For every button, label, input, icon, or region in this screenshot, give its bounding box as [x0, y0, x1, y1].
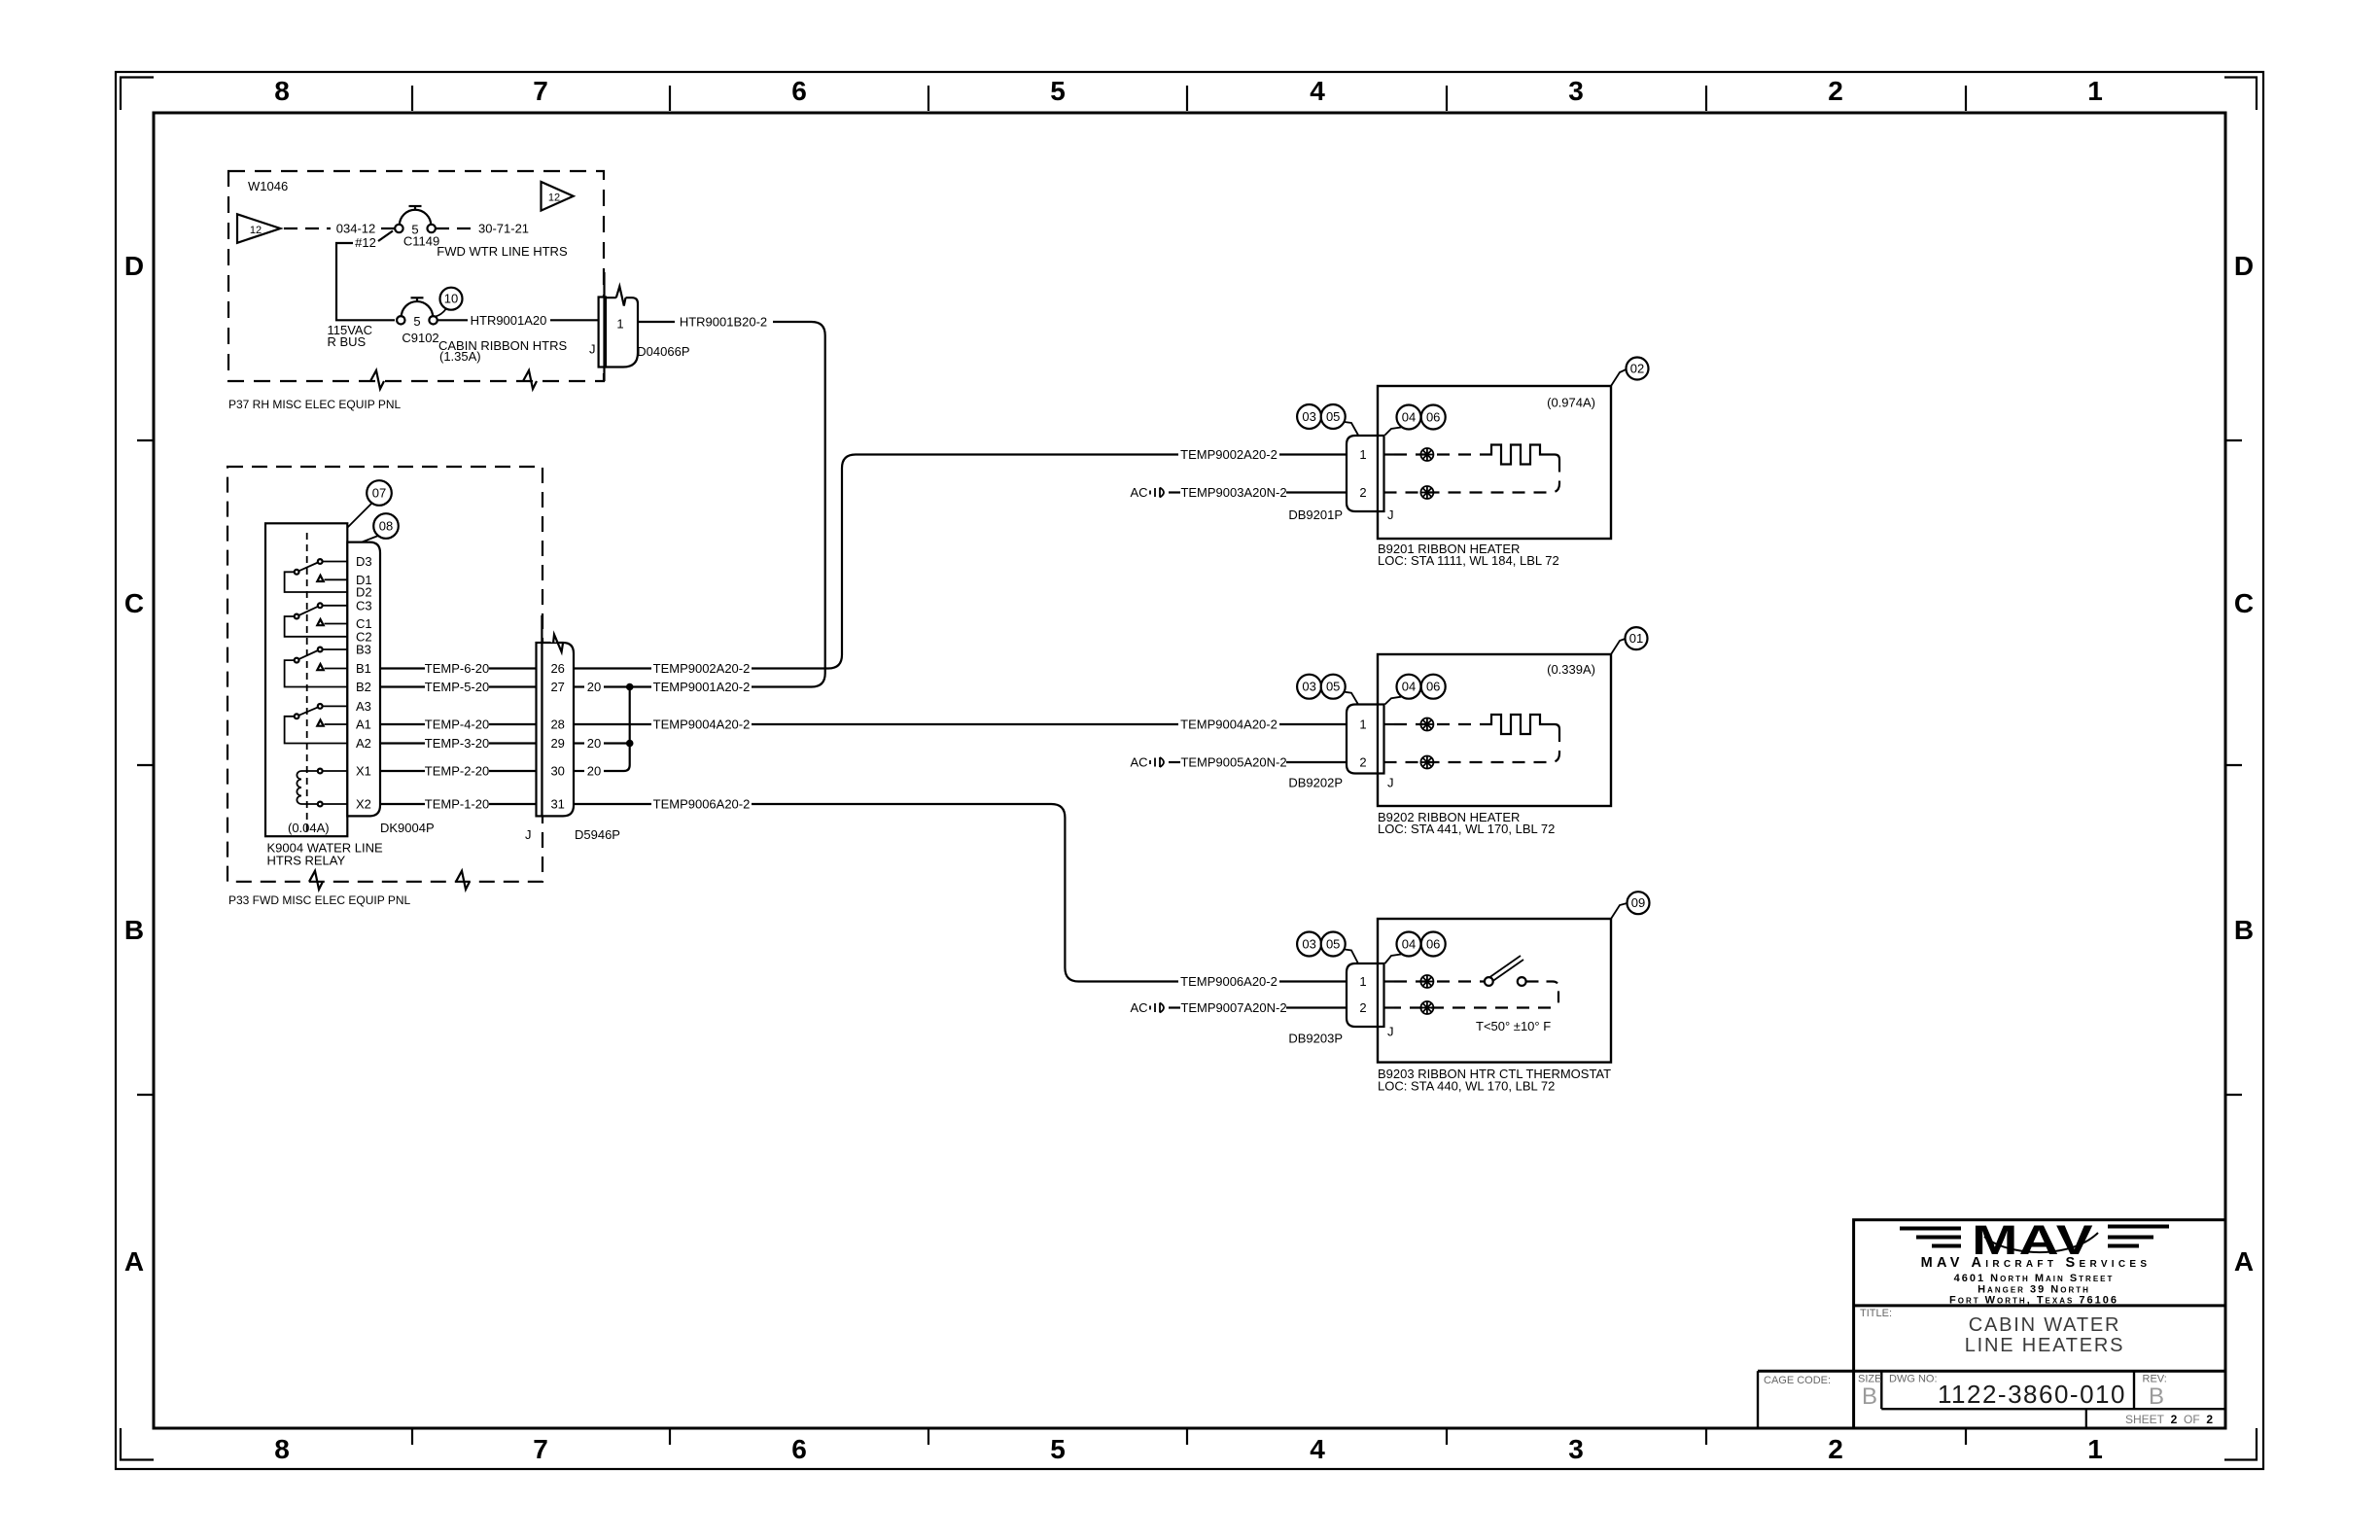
svg-text:1: 1	[2087, 76, 2103, 106]
svg-text:1: 1	[1359, 717, 1366, 732]
wire #12 bus tap	[336, 231, 395, 321]
svg-text:1: 1	[2087, 1434, 2103, 1464]
svg-text:6: 6	[791, 76, 807, 106]
heating element	[1484, 445, 1559, 465]
svg-text:TEMP-6-20: TEMP-6-20	[425, 661, 489, 676]
svg-text:08: 08	[379, 519, 393, 534]
balloon 06	[1421, 675, 1446, 699]
svg-text:A3: A3	[356, 699, 371, 714]
switch output dashes	[1527, 982, 1559, 1008]
svg-text:D3: D3	[356, 554, 372, 569]
svg-text:TEMP9002A20-2: TEMP9002A20-2	[1180, 447, 1277, 462]
svg-text:(1.35A): (1.35A)	[439, 349, 481, 364]
label (0.04A)	[288, 821, 330, 835]
svg-text:X2: X2	[356, 797, 371, 812]
wire TEMP9002A20-2 into DB9201P	[1180, 447, 1347, 462]
svg-text:A: A	[2234, 1246, 2254, 1277]
svg-text:(0.04A): (0.04A)	[288, 821, 330, 835]
element return dashed	[1384, 729, 1560, 762]
wire pin30 20 with riser	[574, 744, 630, 779]
svg-text:07: 07	[372, 486, 386, 501]
svg-text:4601 North Main Street: 4601 North Main Street	[1954, 1273, 2115, 1284]
svg-text:8: 8	[274, 76, 290, 106]
relay coil K9004	[297, 769, 348, 807]
svg-text:P33 FWD MISC ELEC EQUIP PNL: P33 FWD MISC ELEC EQUIP PNL	[228, 893, 410, 907]
svg-text:A2: A2	[356, 736, 371, 751]
svg-text:B: B	[1862, 1383, 1877, 1410]
wire TEMP-3-20	[380, 736, 537, 751]
svg-text:D2: D2	[356, 585, 372, 600]
svg-text:20: 20	[587, 736, 601, 751]
svg-text:30-71-21: 30-71-21	[478, 222, 529, 236]
svg-text:2: 2	[1828, 1434, 1843, 1464]
wire TEMP-1-20	[380, 797, 537, 812]
svg-text:20: 20	[587, 680, 601, 694]
connector DK9004P plug shell	[347, 542, 380, 817]
splice pin1	[1420, 975, 1433, 988]
svg-text:04: 04	[1402, 937, 1416, 952]
svg-text:X1: X1	[356, 764, 371, 779]
connector DB9203P plug shell	[1347, 963, 1384, 1027]
svg-text:5: 5	[1050, 76, 1066, 106]
svg-text:Fort Worth, Texas 76106: Fort Worth, Texas 76106	[1949, 1295, 2118, 1307]
label DB9201P	[1288, 507, 1343, 522]
connector D04066P plug shell	[599, 287, 638, 367]
svg-text:06: 06	[1426, 680, 1440, 694]
svg-text:06: 06	[1426, 937, 1440, 952]
svg-text:B2: B2	[356, 680, 371, 694]
wire TEMP-4-20	[380, 717, 537, 732]
balloon 05	[1321, 675, 1358, 705]
label DB9203P	[1288, 1032, 1343, 1046]
pin wires relay to D5946P with TEMP-x-20 labels	[380, 661, 537, 812]
svg-text:26: 26	[550, 661, 564, 676]
AC ground ref	[1130, 755, 1164, 770]
svg-text:09: 09	[1631, 895, 1645, 910]
svg-text:R BUS: R BUS	[328, 334, 367, 349]
splice pin2	[1420, 756, 1433, 769]
balloon 10	[436, 288, 463, 317]
break symbol on P37 panel bottom edge	[370, 370, 384, 389]
svg-text:TEMP-2-20: TEMP-2-20	[425, 764, 489, 779]
svg-text:04: 04	[1402, 410, 1416, 425]
wire pin28 TEMP9004A20-2	[574, 717, 750, 732]
junction dot pin27	[626, 683, 634, 691]
balloon 07	[348, 480, 392, 527]
svg-text:J: J	[1387, 507, 1394, 522]
svg-text:TEMP9005A20N-2: TEMP9005A20N-2	[1180, 755, 1286, 770]
label P37 RH MISC ELEC EQUIP PNL	[228, 398, 401, 411]
svg-text:W1046: W1046	[248, 179, 288, 193]
balloon 05	[1321, 932, 1358, 964]
panel edge through connector	[603, 272, 605, 381]
svg-text:TEMP9004A20-2: TEMP9004A20-2	[653, 717, 751, 732]
svg-text:03: 03	[1302, 680, 1315, 694]
break symbol on P37 panel bottom edge	[523, 370, 537, 389]
svg-text:TEMP-3-20: TEMP-3-20	[425, 736, 489, 751]
wire TEMP9006A20-2 into DB9203P	[1180, 974, 1347, 989]
wire TEMP-2-20	[380, 764, 537, 779]
svg-text:3: 3	[1568, 1434, 1584, 1464]
svg-text:TEMP9001A20-2: TEMP9001A20-2	[653, 680, 751, 694]
svg-text:6: 6	[791, 1434, 807, 1464]
svg-text:1: 1	[1359, 447, 1366, 462]
wire TEMP9003A20N-2	[1169, 485, 1347, 500]
D5946P pin numbers	[550, 661, 564, 812]
svg-text:TEMP-1-20: TEMP-1-20	[425, 797, 489, 812]
splice pin2	[1420, 486, 1433, 499]
svg-text:4: 4	[1310, 76, 1325, 106]
svg-text:LOC: STA 440, WL 170, LBL 72: LOC: STA 440, WL 170, LBL 72	[1378, 1079, 1555, 1094]
thermostat switch contacts	[1485, 956, 1526, 986]
label B9202 RIBBON HEATER	[1378, 810, 1555, 836]
svg-text:HTR9001B20-2: HTR9001B20-2	[680, 315, 767, 330]
svg-text:TEMP9006A20-2: TEMP9006A20-2	[1180, 974, 1277, 989]
svg-text:CABIN WATER: CABIN WATER	[1969, 1314, 2120, 1336]
svg-text:C: C	[124, 588, 144, 618]
break symbol on P33 panel bottom edge	[456, 871, 470, 890]
label FWD WTR LINE HTRS	[437, 244, 568, 259]
svg-text:TEMP-5-20: TEMP-5-20	[425, 680, 489, 694]
connector DB9201P plug shell	[1347, 436, 1384, 511]
svg-text:TEMP9003A20N-2: TEMP9003A20N-2	[1180, 485, 1286, 500]
svg-text:C3: C3	[356, 598, 372, 612]
wire pin27 20 / TEMP9001A20-2	[574, 680, 750, 694]
svg-text:20: 20	[587, 764, 601, 779]
svg-text:LOC: STA 441, WL 170, LBL 72: LOC: STA 441, WL 170, LBL 72	[1378, 822, 1555, 836]
wire pin31 TEMP9006A20-2	[574, 797, 750, 812]
svg-text:03: 03	[1302, 409, 1315, 424]
svg-text:30: 30	[550, 764, 564, 779]
svg-text:1122-3860-010: 1122-3860-010	[1938, 1380, 2126, 1409]
label J	[525, 827, 532, 842]
svg-text:LINE HEATERS: LINE HEATERS	[1965, 1335, 2125, 1356]
wire 30-71-21	[436, 222, 529, 236]
svg-text:10: 10	[444, 292, 458, 306]
svg-text:2: 2	[1359, 1000, 1366, 1015]
wire TEMP9004A20-2 to heater 2	[752, 723, 1178, 725]
svg-text:HTRS RELAY: HTRS RELAY	[267, 854, 346, 868]
svg-text:DB9201P: DB9201P	[1288, 507, 1343, 522]
label J	[1387, 776, 1394, 790]
label J	[589, 342, 596, 357]
svg-text:DB9203P: DB9203P	[1288, 1032, 1343, 1046]
svg-text:A: A	[124, 1246, 144, 1277]
svg-text:B: B	[2149, 1383, 2164, 1410]
label W1046	[248, 179, 288, 193]
balloon 09	[1611, 892, 1650, 919]
wire pin29 20	[574, 736, 630, 751]
svg-text:AC: AC	[1130, 755, 1147, 770]
MAV logo	[1900, 1216, 2169, 1264]
wire HTR9001B20-2	[638, 315, 825, 687]
svg-text:AC: AC	[1130, 485, 1147, 500]
svg-text:TEMP9007A20N-2: TEMP9007A20N-2	[1180, 1000, 1286, 1015]
label P33 FWD MISC ELEC EQUIP PNL	[228, 893, 410, 907]
svg-text:8: 8	[274, 1434, 290, 1464]
label J	[1387, 507, 1394, 522]
break symbol on P33 panel bottom edge	[309, 871, 323, 890]
connector DB9202P plug shell	[1347, 705, 1384, 774]
svg-text:TEMP9004A20-2: TEMP9004A20-2	[1180, 717, 1277, 732]
svg-text:034-12: 034-12	[336, 222, 375, 236]
label D5946P	[575, 827, 620, 842]
balloon 04	[1385, 405, 1421, 436]
svg-text:DWG NO:: DWG NO:	[1889, 1374, 1938, 1385]
svg-text:4: 4	[1310, 1434, 1325, 1464]
svg-text:B: B	[2234, 915, 2254, 945]
svg-text:TITLE:: TITLE:	[1860, 1308, 1892, 1319]
circuit breaker C9102	[397, 297, 439, 345]
svg-text:01: 01	[1629, 631, 1643, 646]
panel P33 dashed enclosure	[227, 467, 542, 882]
return dashes pin2	[1384, 1006, 1552, 1008]
balloon 03	[1297, 932, 1321, 957]
svg-text:AC: AC	[1130, 1000, 1147, 1015]
off-sheet flag 12 (left)	[237, 214, 280, 243]
svg-text:T<50° ±10° F: T<50° ±10° F	[1476, 1019, 1551, 1033]
svg-text:J: J	[589, 342, 596, 357]
svg-text:(0.339A): (0.339A)	[1547, 662, 1595, 677]
circuit breaker C1149	[395, 206, 439, 249]
svg-text:29: 29	[550, 736, 564, 751]
wire 034-12	[284, 222, 395, 236]
svg-text:2: 2	[1828, 76, 1843, 106]
connector D5946P shell	[537, 615, 575, 816]
svg-text:MAV Aircraft Services: MAV Aircraft Services	[1921, 1255, 2152, 1271]
svg-text:7: 7	[533, 76, 548, 106]
svg-text:12: 12	[250, 225, 262, 236]
wire TEMP9006A20-2 riser to heater 3	[752, 804, 1178, 982]
heater circuit pin1 dashes	[1384, 453, 1485, 455]
wire TEMP9002A20-2 riser to heater 1	[752, 455, 1178, 669]
svg-text:B: B	[124, 915, 144, 945]
label CABIN RIBBON HTRS (1.35A)	[438, 338, 568, 364]
svg-text:B3: B3	[356, 643, 371, 657]
relay contact group D	[285, 559, 348, 592]
splice pin1	[1420, 448, 1433, 461]
wire TEMP-6-20	[380, 661, 537, 676]
heating element	[1484, 715, 1559, 734]
svg-text:DK9004P: DK9004P	[380, 821, 435, 835]
svg-text:TEMP-4-20: TEMP-4-20	[425, 717, 489, 732]
balloon 04	[1385, 675, 1421, 705]
svg-text:C1149: C1149	[403, 234, 439, 249]
relay contact group A	[285, 704, 348, 744]
svg-text:D: D	[124, 251, 144, 281]
heater circuit pin1 dashes	[1384, 723, 1485, 725]
svg-text:P37 RH MISC ELEC EQUIP PNL: P37 RH MISC ELEC EQUIP PNL	[228, 398, 401, 411]
svg-text:TEMP9006A20-2: TEMP9006A20-2	[653, 797, 751, 812]
junction riser pin27-pin29	[629, 687, 631, 744]
svg-text:D: D	[2234, 251, 2254, 281]
svg-text:J: J	[1387, 1025, 1394, 1039]
svg-text:TEMP9002A20-2: TEMP9002A20-2	[653, 661, 751, 676]
label B9203 RIBBON HTR CTL THERMOSTAT	[1378, 1067, 1611, 1094]
wire pin26 TEMP9002A20-2	[574, 661, 750, 676]
B9203 enclosure box	[1378, 919, 1611, 1063]
svg-text:05: 05	[1326, 937, 1340, 952]
label (0.339A)	[1547, 662, 1595, 677]
relay contact group C	[285, 603, 348, 636]
label K9004 WATER LINE HTRS RELAY	[267, 841, 384, 868]
AC ground ref	[1130, 485, 1164, 500]
element return dashed	[1384, 460, 1560, 493]
label J	[1387, 1025, 1394, 1039]
relay mechanical linkage (dashed)	[306, 533, 308, 831]
label (0.974A)	[1547, 396, 1595, 410]
off-sheet flag 12 (top right)	[542, 182, 574, 211]
balloon 06	[1421, 932, 1446, 957]
junction dot pin29	[626, 740, 634, 748]
svg-text:31: 31	[550, 797, 564, 812]
svg-text:C9102: C9102	[402, 331, 438, 345]
svg-text:FWD WTR LINE HTRS: FWD WTR LINE HTRS	[437, 244, 568, 259]
svg-text:03: 03	[1302, 937, 1315, 952]
panel P37 dashed enclosure W1046	[228, 171, 604, 381]
label DB9202P	[1288, 776, 1343, 790]
wire HTR9001A20	[437, 313, 599, 328]
svg-text:5: 5	[413, 314, 420, 329]
B9202 enclosure box	[1378, 654, 1611, 806]
svg-text:B1: B1	[356, 661, 371, 676]
svg-text:5: 5	[1050, 1434, 1066, 1464]
AC ground ref	[1130, 1000, 1164, 1015]
svg-text:DB9202P: DB9202P	[1288, 776, 1343, 790]
svg-text:3: 3	[1568, 76, 1584, 106]
wire TEMP9005A20N-2	[1169, 755, 1347, 770]
balloon 03	[1297, 404, 1321, 429]
svg-text:(0.974A): (0.974A)	[1547, 396, 1595, 410]
label T&lt;50 +-10 F	[1476, 1019, 1551, 1033]
svg-text:#12: #12	[355, 235, 376, 250]
balloon 06	[1421, 405, 1446, 430]
svg-text:1: 1	[616, 317, 623, 332]
svg-text:05: 05	[1326, 680, 1340, 694]
svg-text:12: 12	[548, 192, 560, 204]
svg-text:27: 27	[550, 680, 564, 694]
svg-text:CAGE CODE:: CAGE CODE:	[1764, 1375, 1831, 1386]
svg-text:2: 2	[1359, 755, 1366, 770]
svg-text:D04066P: D04066P	[637, 344, 689, 359]
balloon 02	[1611, 358, 1649, 387]
svg-text:SHEET 2 OF 2: SHEET 2 OF 2	[2125, 1413, 2213, 1426]
svg-text:1: 1	[1359, 974, 1366, 989]
svg-text:06: 06	[1426, 410, 1440, 425]
svg-text:2: 2	[1359, 485, 1366, 500]
wire TEMP9007A20N-2	[1169, 1000, 1347, 1015]
svg-text:HTR9001A20: HTR9001A20	[471, 313, 547, 328]
svg-text:28: 28	[550, 717, 564, 732]
svg-text:D5946P: D5946P	[575, 827, 620, 842]
DK9004P pin labels	[356, 554, 372, 812]
relay K9004 body	[265, 523, 347, 836]
svg-text:05: 05	[1326, 409, 1340, 424]
relay contact group B	[285, 647, 348, 687]
svg-text:C: C	[2234, 588, 2254, 618]
svg-text:7: 7	[533, 1434, 548, 1464]
wire TEMP-5-20	[380, 680, 537, 694]
svg-text:LOC: STA 1111, WL 184, LBL 72: LOC: STA 1111, WL 184, LBL 72	[1378, 553, 1559, 568]
svg-text:04: 04	[1402, 680, 1416, 694]
label B9201 RIBBON HEATER	[1378, 542, 1559, 568]
label 115VAC R BUS	[328, 323, 373, 349]
balloon 03	[1297, 675, 1321, 699]
svg-text:J: J	[525, 827, 532, 842]
svg-text:J: J	[1387, 776, 1394, 790]
balloon 08	[362, 513, 399, 542]
splice pin2	[1420, 1001, 1433, 1014]
B9201 enclosure box	[1378, 386, 1611, 539]
splice pin1	[1420, 718, 1433, 731]
label DK9004P	[380, 821, 435, 835]
balloon 01	[1611, 627, 1648, 654]
wire TEMP9004A20-2 into DB9202P	[1180, 717, 1347, 732]
thermostat circuit pin1 dashes	[1384, 980, 1485, 982]
balloon 04	[1385, 932, 1421, 964]
svg-text:02: 02	[1630, 362, 1644, 376]
label D04066P	[637, 344, 689, 359]
svg-text:A1: A1	[356, 717, 371, 732]
balloon 05	[1321, 404, 1358, 436]
